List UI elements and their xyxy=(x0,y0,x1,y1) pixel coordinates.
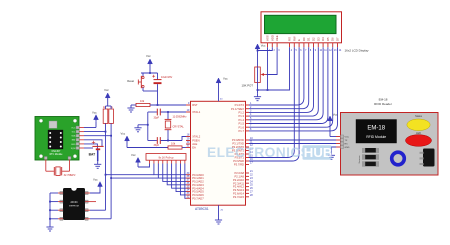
svg-text:GND: GND xyxy=(345,147,350,149)
svg-text:PSEN: PSEN xyxy=(192,139,199,143)
svg-text:E: E xyxy=(297,39,301,41)
svg-text:P1.4: P1.4 xyxy=(238,118,244,122)
antenna coil (blue ring) xyxy=(392,152,405,165)
svg-text:D0: D0 xyxy=(302,37,306,41)
wire: SDA bus vertical xyxy=(105,123,107,210)
svg-text:Vcc: Vcc xyxy=(93,178,98,182)
svg-text:33pF: 33pF xyxy=(154,116,160,119)
svg-text:D1: D1 xyxy=(307,37,311,41)
svg-text:LED: LED xyxy=(416,132,421,135)
svg-text:XTAL2: XTAL2 xyxy=(192,135,201,139)
svg-text:VSS: VSS xyxy=(266,35,270,41)
svg-text:P1.2: P1.2 xyxy=(238,111,244,115)
MCU left pin stubs, numbers and names xyxy=(186,102,204,200)
svg-text:RX: RX xyxy=(345,144,349,146)
svg-text:32.768kHz: 32.768kHz xyxy=(64,174,77,177)
wire: caps common rail xyxy=(147,112,149,141)
svg-text:D5: D5 xyxy=(326,37,330,41)
wire: EEPROM SDA to bus xyxy=(90,209,106,211)
svg-text:RFID Module: RFID Module xyxy=(366,135,386,139)
svg-text:P1.3: P1.3 xyxy=(238,114,244,118)
svg-text:10uF/16V: 10uF/16V xyxy=(161,75,173,79)
wire: RTC SCL to bus xyxy=(84,131,106,133)
svg-text:EM-18: EM-18 xyxy=(367,126,385,132)
svg-text:HUB: HUB xyxy=(304,145,333,160)
junction xyxy=(105,174,107,176)
svg-text:P2.7/A15: P2.7/A15 xyxy=(233,195,245,199)
wire + ground for EM-18 GND xyxy=(328,147,336,159)
svg-text:P2.4/A12: P2.4/A12 xyxy=(233,185,245,189)
svg-text:ELECTRONICS: ELECTRONICS xyxy=(207,145,310,160)
resistor pack RP1 8x 1K pull-up xyxy=(146,154,186,161)
svg-text:AT89C51: AT89C51 xyxy=(195,207,209,211)
svg-text:RFID Reader: RFID Reader xyxy=(374,102,392,106)
svg-text:Status: Status xyxy=(415,115,423,118)
svg-text:Vcc: Vcc xyxy=(104,88,109,92)
junction xyxy=(110,177,112,179)
svg-text:P0.7/AD7: P0.7/AD7 xyxy=(192,196,204,200)
svg-text:RS: RS xyxy=(288,37,292,41)
power Vcc for EM-18 xyxy=(328,113,338,137)
wire: reset top node xyxy=(141,72,158,74)
svg-text:SDA: SDA xyxy=(71,135,76,138)
LED (red) xyxy=(406,132,432,147)
svg-text:RST: RST xyxy=(192,103,198,107)
svg-text:Vcc: Vcc xyxy=(146,54,151,58)
wire: LCD RW to P3.5 xyxy=(249,47,294,157)
svg-text:Reset: Reset xyxy=(127,79,134,83)
power Vcc for EA xyxy=(121,132,169,148)
wire: SCL branch to P0 xyxy=(111,177,158,179)
push button Reset xyxy=(127,73,144,91)
ground for reset resistor xyxy=(127,105,134,112)
svg-text:GND: GND xyxy=(71,144,76,146)
EEPROM pins xyxy=(58,192,90,221)
ground for EEPROM xyxy=(46,224,53,231)
power Vcc for RTC xyxy=(84,110,98,127)
capacitor C1 33pF xyxy=(148,109,186,120)
wire: RTC BAT pin to battery xyxy=(84,140,102,146)
ground for LCD/pot xyxy=(254,94,261,101)
wire: SCL bus vertical xyxy=(110,123,112,218)
capacitor C3 10uF/16V electrolytic xyxy=(152,73,172,91)
crystal X2 32.768kHz xyxy=(46,163,77,177)
power Vcc for pull-ups xyxy=(104,88,111,109)
wire: respack outputs staircase to P0 xyxy=(154,164,186,199)
svg-text:P1.1/T2EX: P1.1/T2EX xyxy=(231,107,244,111)
capacitor C2 33pF xyxy=(148,137,186,147)
RTC module pins 1-6 with labels xyxy=(44,126,84,163)
svg-text:SQW: SQW xyxy=(71,148,76,150)
MCU right pin stubs, numbers and names xyxy=(231,102,253,199)
svg-text:BAT: BAT xyxy=(89,153,96,157)
transistor on module xyxy=(420,149,435,167)
svg-text:VCC: VCC xyxy=(345,137,350,139)
resistor R2 10k (EA pull-up) xyxy=(168,142,186,150)
potentiometer RV1 10K POT xyxy=(242,67,267,87)
LCD display LCD1 16x2 xyxy=(261,12,369,53)
svg-text:Sensors: Sensors xyxy=(358,155,361,164)
junction xyxy=(110,135,112,137)
EM-18 black label plate xyxy=(356,120,397,144)
wire: EEPROM left pins to ground rail xyxy=(49,193,58,224)
wire: P3.1 TXD to EM-18 RX xyxy=(249,143,336,145)
svg-text:EEPROM: EEPROM xyxy=(69,206,79,208)
svg-text:D6: D6 xyxy=(331,37,335,41)
svg-text:D3: D3 xyxy=(316,37,320,41)
svg-text:8x 1K Pull-up: 8x 1K Pull-up xyxy=(159,156,174,159)
wire: VSS and RW to ground rail under pot xyxy=(257,47,290,93)
svg-text:P1.7: P1.7 xyxy=(238,129,244,133)
EM-18 pins VCC TX RX GND xyxy=(336,135,350,149)
svg-text:P2.2/A10: P2.2/A10 xyxy=(233,178,245,182)
svg-text:Vcc: Vcc xyxy=(131,153,136,157)
wire: RTC GND pin to ground xyxy=(84,144,97,161)
svg-text:D7: D7 xyxy=(336,37,340,41)
wire: EEPROM pin 7 stub xyxy=(90,201,96,203)
svg-text:P1.5: P1.5 xyxy=(238,122,244,126)
svg-text:P2.3/A11: P2.3/A11 xyxy=(233,181,244,185)
svg-text:P2.5/A13: P2.5/A13 xyxy=(233,188,245,192)
junction xyxy=(105,131,107,133)
svg-text:Vcc: Vcc xyxy=(333,113,338,117)
wire + power Vcc for EEPROM pin 8 xyxy=(90,178,102,193)
wire: reset bottom node to RST xyxy=(143,91,158,106)
wire: EEPROM SCL to bus xyxy=(90,218,111,220)
svg-text:VDD: VDD xyxy=(270,35,274,41)
svg-text:P3.7/RD: P3.7/RD xyxy=(234,163,244,167)
svg-text:16x2 LCD Display: 16x2 LCD Display xyxy=(345,48,370,52)
SMD resistors on module xyxy=(358,148,379,166)
svg-text:RW: RW xyxy=(292,36,296,41)
svg-text:VCC: VCC xyxy=(71,127,76,129)
LCD pin stubs, names and numbers xyxy=(266,35,342,52)
svg-text:10k: 10k xyxy=(140,99,145,103)
svg-text:P2.1/A9: P2.1/A9 xyxy=(234,175,244,179)
resistor R1 10k (reset pulldown) xyxy=(131,99,150,107)
MCU pin 20 to ground xyxy=(215,205,224,224)
wire: VEE to pot wiper xyxy=(267,47,278,74)
svg-text:XTAL1: XTAL1 xyxy=(192,110,201,114)
svg-text:10K POT: 10K POT xyxy=(242,83,254,87)
svg-text:Vcc: Vcc xyxy=(121,132,126,136)
svg-text:10k: 10k xyxy=(171,142,176,146)
svg-text:RTC Module: RTC Module xyxy=(50,154,64,156)
svg-text:33pF: 33pF xyxy=(154,144,160,147)
microcontroller U1 AT89C51 xyxy=(191,101,246,211)
watermark (decorative) xyxy=(207,145,332,160)
EEPROM U3 24C04 xyxy=(63,188,85,220)
svg-text:VEE: VEE xyxy=(275,35,279,41)
wire: LCD E to P3.6 xyxy=(249,47,299,161)
DS1307 RTC Module board xyxy=(35,117,79,161)
svg-text:P1.6: P1.6 xyxy=(238,125,244,129)
power Vcc for LCD VDD xyxy=(255,44,266,68)
wire: RST net xyxy=(150,104,186,106)
power Vcc MCU pin 40 xyxy=(216,77,228,102)
svg-text:D2: D2 xyxy=(312,37,316,41)
svg-text:P3.0/RXD: P3.0/RXD xyxy=(232,138,244,142)
resistor R 1k (SCL pull-up) xyxy=(103,106,108,124)
svg-text:P2.0/A8: P2.0/A8 xyxy=(234,171,244,175)
svg-text:Vcc: Vcc xyxy=(223,77,228,81)
svg-text:Vcc: Vcc xyxy=(261,44,266,48)
svg-text:D4: D4 xyxy=(321,37,325,41)
ground under battery xyxy=(94,161,101,168)
svg-text:11.0592MHz: 11.0592MHz xyxy=(173,116,188,119)
LED Status (yellow) xyxy=(407,115,430,131)
wire: SDA branch to P0 xyxy=(106,174,154,176)
power Vcc respack pin1 xyxy=(131,153,150,167)
svg-text:DS1307: DS1307 xyxy=(52,150,61,153)
svg-text:P1.0/T2: P1.0/T2 xyxy=(235,103,245,107)
battery BAT xyxy=(89,141,104,162)
ground for crystal caps xyxy=(134,124,148,132)
wire: LCD data D0-D7 to P1.0-P1.7 staircase xyxy=(249,47,338,131)
crystal X1 11.0592MHz xyxy=(165,111,188,141)
respack pin stubs xyxy=(150,160,185,163)
svg-text:ALE: ALE xyxy=(192,142,197,146)
wire: RTC SDA to bus xyxy=(84,135,111,137)
wire: RTC SQW stub xyxy=(84,147,93,149)
svg-text:P2.6/A14: P2.6/A14 xyxy=(233,192,245,196)
svg-text:Vcc: Vcc xyxy=(92,110,97,114)
resistor R 1k (SDA pull-up) xyxy=(109,106,114,124)
svg-text:CRYSTAL: CRYSTAL xyxy=(173,126,185,129)
svg-text:24C04: 24C04 xyxy=(70,201,78,204)
wire: VDD to Vcc rail xyxy=(257,47,273,51)
wire: P3.0 RXD to EM-18 TX xyxy=(249,139,336,141)
power Vcc reset circuit xyxy=(146,54,152,73)
svg-text:EA: EA xyxy=(192,146,196,150)
EM-18 RFID Reader module xyxy=(341,98,439,176)
